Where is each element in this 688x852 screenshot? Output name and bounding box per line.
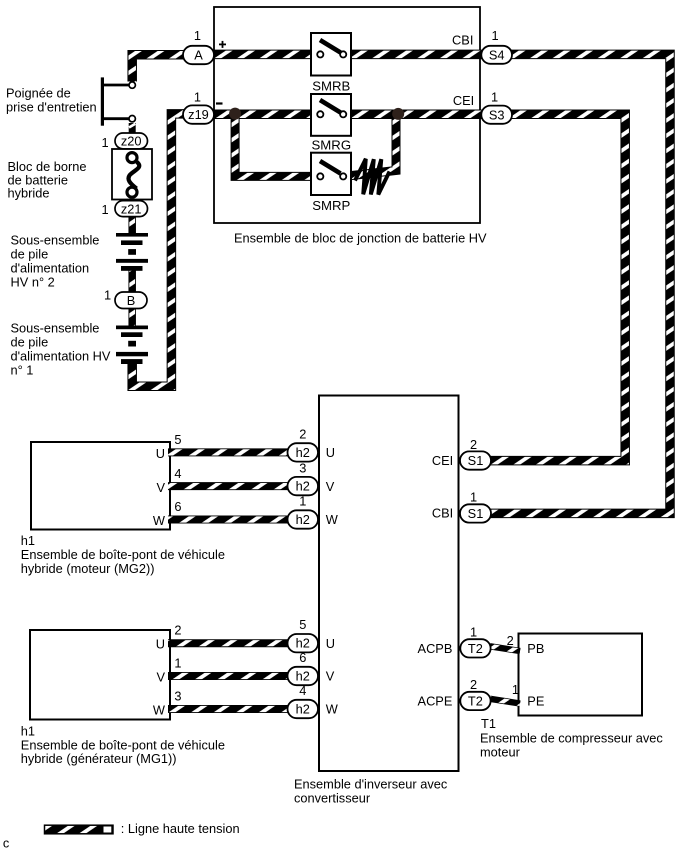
svg-text:PB: PB [527, 641, 544, 656]
svg-text:T1: T1 [481, 716, 496, 731]
svg-text:hybride (générateur (MG1)): hybride (générateur (MG1)) [21, 751, 177, 766]
svg-text:z21: z21 [121, 201, 142, 216]
svg-text:2: 2 [507, 633, 514, 648]
svg-text:z19: z19 [188, 107, 209, 122]
svg-text:h1: h1 [21, 533, 35, 548]
connector h2 MG1 U [288, 634, 319, 652]
wire SMRP through resistor up to CEI node [344, 118, 396, 176]
svg-text:T2: T2 [468, 641, 483, 656]
relay SMRB [311, 33, 351, 94]
svg-text:1: 1 [101, 135, 108, 150]
svg-text:W: W [153, 513, 166, 528]
svg-text:1: 1 [194, 90, 201, 105]
svg-text:V: V [156, 480, 165, 495]
svg-text:2: 2 [470, 437, 477, 452]
node + [219, 44, 226, 46]
MG2 transaxle box h1 [31, 442, 170, 530]
svg-text:B: B [127, 293, 136, 308]
wire node CEI: SMRG to S3 to S1 [346, 114, 626, 460]
svg-text:U: U [326, 636, 335, 651]
connector h2 MG1 W [288, 700, 319, 718]
svg-text:6: 6 [174, 499, 181, 514]
connector S3 [481, 106, 512, 124]
svg-text:U: U [156, 637, 165, 652]
svg-text:SMRB: SMRB [312, 79, 350, 94]
svg-text:prise d'entretien: prise d'entretien [6, 100, 97, 115]
wire MG1 U phase [168, 639, 298, 647]
svg-text:1: 1 [104, 288, 111, 303]
connector h2 MG2 V [288, 477, 319, 495]
wire precharge branch to SMRP [235, 114, 318, 176]
svg-text:PE: PE [527, 694, 544, 709]
svg-text:h2: h2 [296, 445, 310, 460]
svg-text:1: 1 [299, 494, 306, 509]
svg-text:V: V [326, 669, 335, 684]
HV battery junction block box U1 [214, 7, 480, 223]
svg-text:d'alimentation HV: d'alimentation HV [11, 349, 111, 364]
svg-text:h2: h2 [296, 479, 310, 494]
battery stack HV no.2 [116, 233, 148, 271]
connector S1 CEI [460, 451, 491, 469]
svg-text:n° 1: n° 1 [11, 363, 34, 378]
svg-text:de pile: de pile [11, 335, 49, 350]
svg-text:Poignée de: Poignée de [6, 86, 71, 101]
svg-text:3: 3 [299, 460, 306, 475]
svg-text:S1: S1 [468, 453, 484, 468]
svg-text:Ensemble d'inverseur avec: Ensemble d'inverseur avec [294, 777, 448, 792]
connector T2 ACPB [460, 639, 490, 657]
svg-text:Ensemble de boîte-pont de véhi: Ensemble de boîte-pont de véhicule [21, 547, 225, 562]
wire battery stack 1 bottom to z19 [132, 114, 184, 386]
svg-text:HV n° 2: HV n° 2 [11, 275, 55, 290]
svg-text:1: 1 [491, 28, 498, 43]
svg-text:de pile: de pile [11, 247, 49, 262]
svg-text:W: W [153, 703, 166, 718]
wire node CBI: SMRB to S4 to S1 [346, 54, 671, 513]
wire service plug to z20 [129, 123, 136, 134]
svg-text:CBI: CBI [432, 506, 453, 521]
wire z21 to battery stack 2 [128, 215, 136, 234]
svg-text:S1: S1 [468, 506, 484, 521]
svg-text:A: A [194, 48, 203, 63]
svg-text:V: V [156, 670, 165, 685]
inverter with converter assembly box [319, 396, 459, 772]
svg-text:c: c [3, 836, 10, 851]
svg-text:2: 2 [299, 427, 306, 442]
svg-text:1: 1 [194, 28, 201, 43]
svg-text:Ensemble de compresseur avec: Ensemble de compresseur avec [480, 731, 663, 746]
svg-text:CEI: CEI [453, 93, 474, 108]
svg-text:Sous-ensemble: Sous-ensemble [11, 321, 100, 336]
svg-text:W: W [326, 512, 339, 527]
battery stack HV no.1 [116, 326, 148, 365]
svg-text:Sous-ensemble: Sous-ensemble [11, 233, 100, 248]
svg-text:z20: z20 [121, 134, 142, 149]
legend: high-voltage line sample [45, 825, 114, 834]
connector A [183, 46, 214, 64]
wire MG2 U phase [168, 448, 298, 456]
svg-text:1: 1 [512, 682, 519, 697]
svg-text:1: 1 [101, 202, 108, 217]
svg-text:d'alimentation: d'alimentation [11, 261, 90, 276]
svg-text:: Ligne haute tension: : Ligne haute tension [121, 821, 240, 836]
connector h2 MG2 U [288, 443, 319, 461]
junction dot node CEI right [392, 108, 404, 120]
svg-text:Ensemble de bloc de jonction d: Ensemble de bloc de jonction de batterie… [234, 231, 487, 246]
connector h2 MG2 W [288, 510, 319, 528]
svg-text:ACPB: ACPB [418, 641, 453, 656]
relay SMRG [311, 94, 351, 153]
svg-text:T2: T2 [468, 694, 483, 709]
service plug grip (Poignée de prise d'entretien) [101, 77, 135, 125]
svg-text:5: 5 [174, 432, 181, 447]
node - [216, 102, 223, 104]
svg-text:SMRP: SMRP [312, 198, 350, 213]
connector S4 [481, 46, 512, 64]
svg-text:h2: h2 [296, 701, 310, 716]
svg-text:convertisseur: convertisseur [294, 791, 371, 806]
svg-text:h2: h2 [296, 512, 310, 527]
svg-text:W: W [326, 702, 339, 717]
svg-text:moteur: moteur [480, 745, 521, 760]
svg-text:6: 6 [299, 650, 306, 665]
wire node CBI: A to SMRB [200, 50, 319, 60]
connector z20 [115, 133, 148, 149]
svg-text:hybride: hybride [8, 186, 50, 201]
svg-text:1: 1 [470, 625, 477, 640]
hybrid battery terminal block (fuse) [112, 149, 152, 200]
svg-text:2: 2 [470, 677, 477, 692]
svg-text:ACPE: ACPE [418, 693, 453, 708]
wire MG1 W phase [168, 705, 298, 713]
junction dot node CEI left [229, 108, 241, 120]
wire A to service plug [132, 55, 200, 82]
svg-text:1: 1 [470, 490, 477, 505]
svg-text:S3: S3 [489, 107, 505, 122]
connector B [115, 292, 147, 309]
wire MG1 V phase [168, 672, 298, 680]
svg-text:1: 1 [174, 656, 181, 671]
wire T2 to PB [490, 646, 520, 651]
svg-text:U: U [156, 446, 165, 461]
svg-text:CBI: CBI [452, 33, 473, 48]
svg-text:SMRG: SMRG [312, 138, 352, 153]
connector z21 [115, 201, 148, 217]
svg-text:1: 1 [491, 90, 498, 105]
wire T2 to PE [490, 699, 520, 704]
svg-text:S4: S4 [489, 47, 505, 62]
svg-text:4: 4 [299, 683, 306, 698]
svg-text:U: U [326, 445, 335, 460]
svg-text:h2: h2 [296, 668, 310, 683]
wire B to battery stack 1 [128, 307, 136, 327]
resistor R (precharge) zigzag [355, 159, 390, 195]
svg-text:2: 2 [174, 623, 181, 638]
MG1 transaxle box h1 [30, 630, 170, 720]
wire battery stack 2 to B [128, 270, 136, 294]
svg-text:h1: h1 [21, 723, 35, 738]
wire MG2 W phase [168, 516, 298, 524]
compressor with motor assembly box T1 [519, 634, 643, 716]
svg-text:h2: h2 [296, 636, 310, 651]
relay SMRP [311, 153, 351, 213]
connector z19 [183, 105, 214, 123]
connector h2 MG1 V [288, 667, 319, 685]
svg-text:V: V [326, 479, 335, 494]
svg-text:5: 5 [299, 617, 306, 632]
svg-text:3: 3 [174, 689, 181, 704]
connector T2 ACPE [460, 692, 490, 710]
connector S1 CBI [460, 504, 491, 522]
wire node CEI: z19 to SMRG [200, 110, 319, 120]
svg-text:CEI: CEI [432, 453, 453, 468]
wire MG2 V phase [168, 482, 298, 490]
svg-text:4: 4 [174, 466, 181, 481]
svg-text:hybride (moteur (MG2)): hybride (moteur (MG2)) [21, 561, 155, 576]
